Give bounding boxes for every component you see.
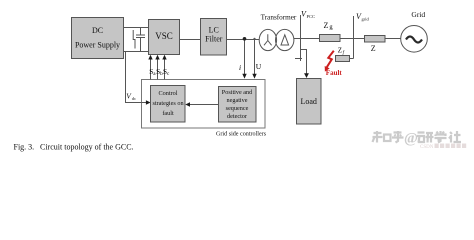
svg-text:DC: DC xyxy=(92,26,103,35)
svg-text:negative: negative xyxy=(227,97,248,104)
svg-text:PCC: PCC xyxy=(307,14,316,19)
svg-text:LC: LC xyxy=(209,26,219,35)
svg-text:Load: Load xyxy=(300,97,316,106)
svg-text:Control: Control xyxy=(159,90,178,97)
svg-text:CSDN: CSDN xyxy=(420,145,434,150)
svg-text:dc: dc xyxy=(132,96,136,101)
svg-text:Filter: Filter xyxy=(205,35,223,44)
svg-text:Z: Z xyxy=(338,47,342,55)
svg-text:sequence: sequence xyxy=(226,105,249,112)
svg-text:U: U xyxy=(256,62,262,71)
svg-text:grid: grid xyxy=(362,17,370,22)
svg-text:Positive and: Positive and xyxy=(222,89,253,96)
svg-text:Z: Z xyxy=(324,21,329,30)
svg-text:Transformer: Transformer xyxy=(261,14,297,22)
svg-text:strategies on: strategies on xyxy=(152,100,183,107)
svg-text:@: @ xyxy=(404,131,418,147)
svg-text:i: i xyxy=(239,63,241,72)
svg-text:VSC: VSC xyxy=(155,31,173,41)
svg-text:Circuit topology of the GCC.: Circuit topology of the GCC. xyxy=(40,142,134,151)
svg-text:Fig. 3.: Fig. 3. xyxy=(14,142,35,151)
svg-text:Grid: Grid xyxy=(411,10,425,19)
svg-text:Z: Z xyxy=(371,44,376,53)
svg-text:Grid side controllers: Grid side controllers xyxy=(216,131,267,137)
svg-text:Power Supply: Power Supply xyxy=(75,41,120,50)
svg-text:g: g xyxy=(329,23,333,30)
svg-text:c: c xyxy=(167,71,170,77)
svg-text:detector: detector xyxy=(227,113,247,120)
svg-text:Fault: Fault xyxy=(326,69,343,77)
svg-text:fault: fault xyxy=(162,110,174,117)
